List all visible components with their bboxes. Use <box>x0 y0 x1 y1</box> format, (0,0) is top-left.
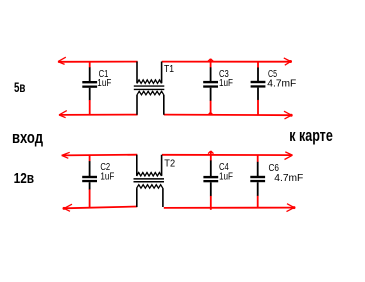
capacitor C5 <box>251 62 297 115</box>
arrow: 5V top rail right arrowhead <box>284 58 292 65</box>
wire: 12V top rail right segment <box>162 154 292 156</box>
wire: 5V top rail left segment <box>58 61 138 63</box>
arrow: 12V bottom rail left arrowhead <box>63 204 73 211</box>
wire: 12V top rail left segment <box>62 154 138 157</box>
wire: 12V bottom rail left segment <box>64 207 137 209</box>
svg-text:4.7mF: 4.7mF <box>274 173 303 184</box>
svg-text:12в: 12в <box>14 171 35 187</box>
svg-text:T1: T1 <box>164 64 174 75</box>
wire: 12V bottom rail right segment <box>164 207 294 209</box>
arrow: 12V bottom rail right arrowhead <box>287 204 296 212</box>
capacitor C3 <box>203 59 233 115</box>
svg-text:5в: 5в <box>14 80 26 96</box>
wire: 5V bottom rail right segment <box>164 114 291 117</box>
arrow: 12V top rail left arrowhead <box>62 152 70 158</box>
svg-text:1uF: 1uF <box>219 171 233 182</box>
capacitor C4 <box>203 151 233 210</box>
capacitor C2 <box>82 155 114 207</box>
arrow: 5V bottom rail left arrowhead <box>59 111 67 118</box>
arrow: 5V top rail left arrowhead <box>58 57 66 64</box>
svg-text:1uF: 1uF <box>97 78 111 89</box>
wire: 5V bottom rail left segment <box>59 114 138 116</box>
svg-text:вход: вход <box>12 128 43 147</box>
svg-text:1uF: 1uF <box>219 78 233 89</box>
svg-text:1uF: 1uF <box>100 171 114 182</box>
capacitor C6 <box>250 155 303 209</box>
arrow: 5V bottom rail right arrowhead <box>284 111 293 119</box>
arrow: 12V top rail right arrowhead <box>285 152 293 160</box>
wire: 5V top rail right segment <box>162 61 291 63</box>
transformer T1 <box>134 62 175 115</box>
capacitor C1 <box>82 62 111 115</box>
svg-text:T2: T2 <box>164 158 175 169</box>
svg-text:к карте: к карте <box>289 126 333 145</box>
transformer T2 <box>134 155 176 207</box>
svg-text:4.7mF: 4.7mF <box>267 78 296 89</box>
